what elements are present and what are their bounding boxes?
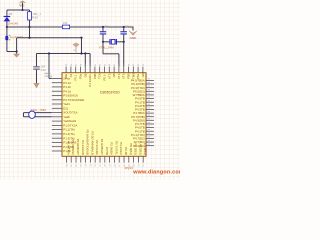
node junction key rail corner <box>80 37 82 39</box>
svg-text:P3.0/XBDAT: P3.0/XBDAT <box>100 139 104 155</box>
wire crystal right to pin 13 <box>123 42 125 67</box>
wire resistor bottom lead <box>29 20 31 27</box>
svg-text:www.diangon.com: www.diangon.com <box>132 170 180 176</box>
bottom pin name labels (vertical) <box>66 130 147 156</box>
svg-text:P5.6: P5.6 <box>103 74 107 80</box>
wire crystal left to pin 12 <box>102 42 104 54</box>
svg-text:AC7(B2): AC7(B2) <box>138 144 142 155</box>
bottom pin stubs with numbers <box>65 156 67 162</box>
svg-text:104: 104 <box>63 21 68 25</box>
node junction resistor/rail A <box>28 26 30 28</box>
label net stubs near left pins <box>45 73 51 74</box>
svg-text:P2.0/KBA: P2.0/KBA <box>110 142 114 155</box>
battery BT1 <box>6 27 8 36</box>
node junction crystal left <box>102 41 104 43</box>
op-amp U1 microcontroller C8051F020 body <box>62 73 146 157</box>
svg-text:XT1: XT1 <box>117 73 121 79</box>
wire rail B to top pin 6 <box>89 54 91 67</box>
capacitor C3 (decoupling) <box>36 54 38 67</box>
wire rail A (ground rail) <box>7 26 62 28</box>
svg-text:XTAL_24M: XTAL_24M <box>99 45 114 49</box>
svg-text:P2.4B: P2.4B <box>124 147 128 155</box>
capacitor C2 <box>123 27 125 31</box>
left pin stubs <box>52 77 62 79</box>
wire resistor top lead <box>29 10 31 12</box>
wire cap C3 bottom lead <box>36 70 38 83</box>
svg-text:P0B: P0B <box>93 73 97 79</box>
svg-text:P5.1: P5.1 <box>74 74 78 80</box>
svg-text:P2.0/2.4MHBA/LB: P2.0/2.4MHBA/LB <box>90 131 94 155</box>
svg-text:D5: D5 <box>9 12 13 16</box>
svg-text:P0.6(B2): P0.6(B2) <box>129 143 133 154</box>
svg-text:C8051F020: C8051F020 <box>100 91 120 95</box>
wire battery bottom lead <box>6 40 8 51</box>
top pin stubs with numbers <box>65 67 67 73</box>
wire bottom-left horizontal <box>7 51 17 53</box>
wire key rail <box>17 37 82 39</box>
svg-text:P5a: P5a <box>136 73 140 79</box>
svg-text:D8: D8 <box>112 73 116 77</box>
svg-text:P1.7(MOSI): P1.7(MOSI) <box>71 140 75 155</box>
wire rail B to left pin 1 <box>48 52 50 54</box>
svg-text:P1.6/TX0A: P1.6/TX0A <box>66 141 70 155</box>
ground arrow below C3 <box>33 83 39 88</box>
node junction at VCC rail <box>21 9 23 11</box>
node junction rail B / key drop <box>80 52 82 54</box>
node junction at ground drop <box>16 50 18 52</box>
svg-text:GND: GND <box>130 36 138 40</box>
right pin name labels <box>131 79 145 148</box>
svg-text:P2.1/CEXB: P2.1/CEXB <box>81 140 85 155</box>
svg-text:P2.5B: P2.5B <box>105 147 109 155</box>
svg-text:P3.1/CEX: P3.1/CEX <box>119 142 123 155</box>
resistor R1 10K <box>28 12 32 20</box>
capacitor C1 <box>102 27 104 31</box>
diode D1 <box>6 10 8 16</box>
svg-text:P2.3/XADC: P2.3/XADC <box>95 140 99 155</box>
svg-text:R15: R15 <box>32 16 38 20</box>
svg-text:1N4148: 1N4148 <box>8 21 19 25</box>
power port VCC (top) <box>20 1 26 3</box>
resonator Y2 (circle with two leads) <box>24 112 52 114</box>
svg-text:A0a: A0a <box>64 73 68 79</box>
wire rail B (VCC rail) <box>37 53 91 55</box>
node junction diode/rail <box>6 26 8 28</box>
svg-text:TMS: TMS <box>131 73 135 79</box>
svg-text:P2.7/XTAL: P2.7/XTAL <box>114 141 118 155</box>
crystal Y1 <box>103 41 110 43</box>
ferrite bead L1 (series box) <box>62 25 69 29</box>
svg-text:XT2: XT2 <box>122 73 126 79</box>
wire VCC stem <box>22 3 24 10</box>
wire key rail left drop <box>16 38 18 52</box>
wire key rail right drop <box>81 38 83 54</box>
node junction crystal right <box>123 41 125 43</box>
wire rail B to top pin 5 <box>84 52 86 54</box>
svg-text:P5B: P5B <box>127 73 131 79</box>
grid background <box>0 0 180 180</box>
node junction resistor/key rail <box>29 27 31 38</box>
svg-text:P4.1/AD1: P4.1/AD1 <box>88 74 92 87</box>
svg-text:30p: 30p <box>105 25 110 29</box>
power port VCC2 (above rail B) <box>73 43 80 48</box>
top pin name labels (vertical) <box>64 73 145 87</box>
node junction cap C1 top <box>102 26 104 28</box>
wire diode bottom lead <box>6 21 8 27</box>
wire top horizontal <box>7 9 30 11</box>
svg-text:P1.0(B2): P1.0(B2) <box>143 143 147 154</box>
svg-text:P5a: P5a <box>79 73 83 79</box>
wire rail A continues <box>70 26 133 28</box>
svg-text:C14: C14 <box>41 68 47 72</box>
svg-text:TCK: TCK <box>98 73 102 79</box>
wire rail A down to GND <box>132 27 134 31</box>
svg-text:WR: WR <box>141 73 145 78</box>
right pin stubs with numbers <box>146 79 154 81</box>
ground GND (right of crystal) <box>129 31 137 36</box>
svg-text:A3: A3 <box>69 73 73 77</box>
svg-text:P0.7(B2): P0.7(B2) <box>134 143 138 154</box>
svg-text:XT1: XT1 <box>107 73 111 79</box>
svg-text:30p: 30p <box>125 25 130 29</box>
ground (left, triangle) <box>16 52 18 54</box>
svg-text:key10: key10 <box>125 166 134 170</box>
svg-text:P2.0/KBDAT: P2.0/KBDAT <box>76 139 80 155</box>
left pin name labels <box>63 77 84 154</box>
svg-text:P2.6/KADAT/DOUB: P2.6/KADAT/DOUB <box>86 130 90 155</box>
node junction cap C2 top <box>123 26 125 28</box>
svg-text:D8: D8 <box>83 73 87 77</box>
